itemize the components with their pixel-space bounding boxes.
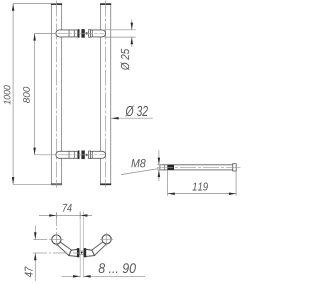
screw dot [86, 154, 88, 156]
dimension 800 [23, 33, 56, 154]
centerline left tube [55, 1, 57, 188]
dimension diameter 25 [104, 20, 136, 71]
upper mounting assembly [56, 29, 106, 38]
right circle vertical centerline [106, 233, 108, 246]
tube left bottom end cap [51, 183, 62, 185]
right post capsule [90, 151, 105, 158]
right angled leg [92, 242, 107, 256]
left post capsule [56, 30, 78, 37]
leader line [121, 169, 159, 175]
M8 stud rod [157, 164, 241, 171]
right foot [86, 249, 95, 256]
tube right top end cap [100, 3, 111, 5]
right post capsule [90, 30, 105, 37]
washer dark [78, 151, 80, 160]
left circle vertical centerline [55, 212, 57, 246]
door edge lines [79, 212, 81, 278]
tube left top end cap [51, 3, 62, 5]
dimension 47 [25, 226, 37, 281]
tip tick [164, 165, 166, 170]
right circle horizontal centerline [100, 238, 113, 240]
lower mounting assembly [56, 151, 106, 160]
left circle horizontal centerline [33, 239, 63, 241]
thread section [167, 165, 174, 170]
clamp sleeve [80, 251, 84, 254]
handle tube right (side view) [101, 4, 111, 184]
left handle section circle [52, 235, 61, 244]
right handle section circle [102, 235, 111, 244]
dimension 74 [39, 204, 92, 219]
right clamp nut [84, 248, 87, 257]
diameter 32 leader [111, 106, 153, 120]
M8 diameter dimension [121, 150, 161, 181]
washer outline [89, 30, 91, 38]
left angled leg [57, 242, 72, 256]
capsule divider lines [68, 151, 70, 158]
dimension 8 ... 90 [62, 263, 146, 277]
centerline right tube [105, 1, 107, 188]
screw dot [86, 32, 88, 34]
nut dark [81, 151, 84, 160]
tube right bottom end cap [100, 183, 111, 185]
capsule divider [91, 30, 93, 37]
left post capsule [56, 151, 78, 158]
washer outline [89, 151, 91, 159]
assembly centerline [58, 154, 105, 156]
clamp screw dot [81, 252, 83, 254]
dimension 1000 [4, 4, 62, 185]
end cap [233, 164, 237, 171]
washer dark [78, 29, 80, 38]
left foot [69, 249, 78, 256]
M8 label [131, 159, 145, 167]
nut dark [81, 29, 84, 38]
stud centerline [157, 166, 241, 168]
left clamp nut [77, 248, 80, 257]
foot centerline [33, 252, 79, 254]
dimension 119 [168, 170, 237, 196]
assembly centerline [58, 32, 105, 34]
capsule divider [91, 151, 93, 158]
capsule divider lines [68, 30, 70, 37]
handle tube left (side view) [51, 4, 61, 184]
